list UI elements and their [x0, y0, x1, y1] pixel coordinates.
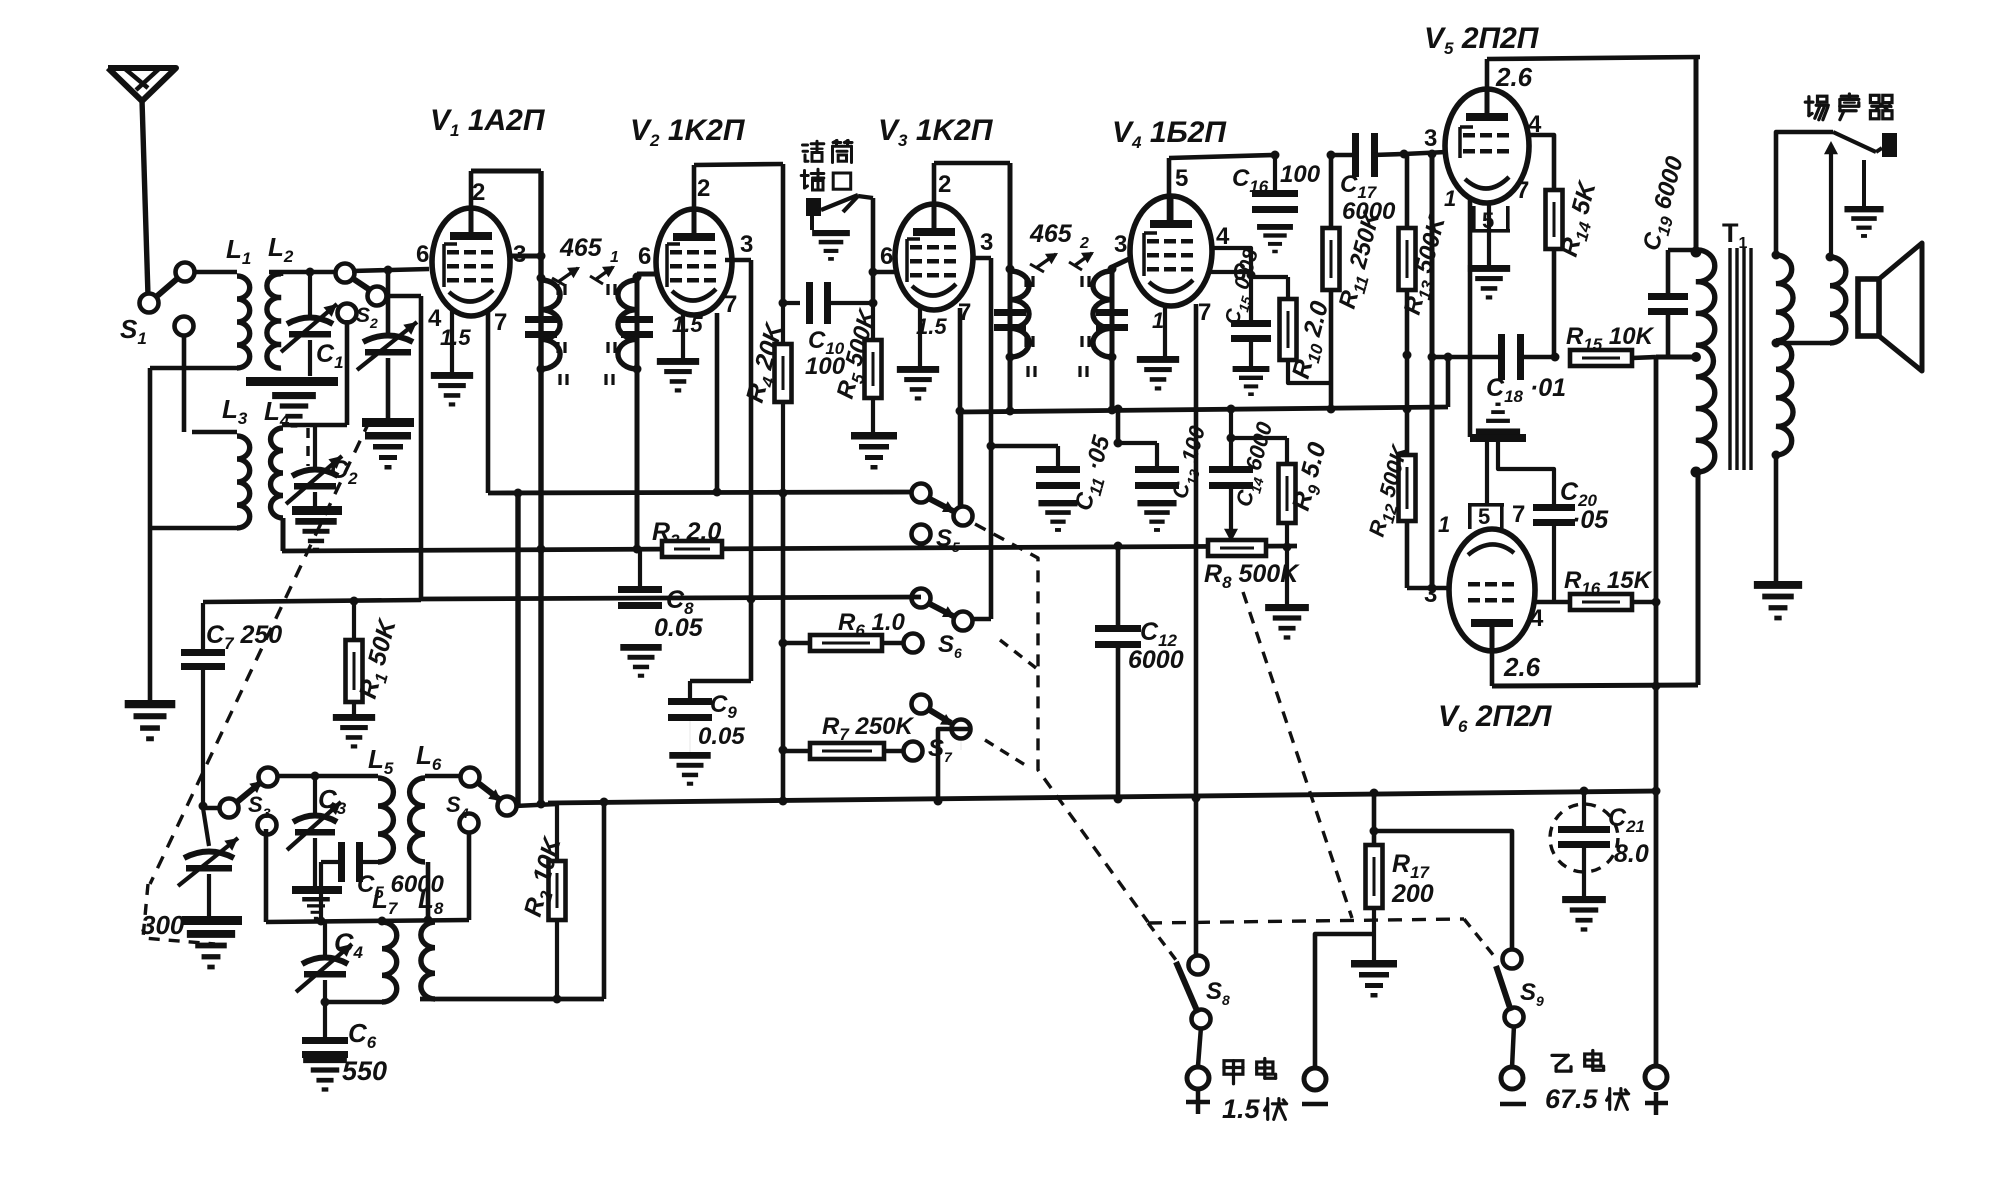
- wire V3 pin3 band line: [971, 256, 991, 261]
- svg-text:2: 2: [938, 171, 951, 198]
- speaker jack: [1882, 133, 1897, 157]
- transformer T1 primary: [1694, 57, 1699, 250]
- capacitor C12: [1116, 546, 1121, 625]
- wire R4 bottom to R6/R7: [781, 493, 786, 802]
- transformer T1 core: [1728, 248, 1731, 470]
- resistor R5 500K: [871, 303, 875, 340]
- resistor R14 5K: [1546, 190, 1563, 249]
- capacitor C15: [1249, 277, 1253, 320]
- svg-text:·05: ·05: [1572, 506, 1609, 534]
- IF1 primary coil: [541, 280, 560, 369]
- filament mid bar and ground: [1470, 434, 1526, 442]
- svg-text:200: 200: [1391, 880, 1434, 908]
- wire V2 pin3 AVC line: [725, 258, 751, 263]
- ground below R1: [333, 714, 375, 749]
- wire V5 cathode ground: [1487, 203, 1491, 267]
- wire S2 to V1 grid: [352, 269, 429, 271]
- wire S7 pivot to bus: [960, 737, 962, 750]
- wire plate drop to R4: [781, 164, 786, 303]
- wire S2 pivot to oscillator line: [385, 294, 421, 299]
- tuning capacitor (main gang): [386, 270, 391, 336]
- svg-text:1: 1: [1438, 512, 1450, 537]
- tube V3 1K2П: [895, 204, 973, 310]
- resistor R4 20K: [781, 303, 785, 344]
- svg-text:3: 3: [740, 231, 753, 258]
- wire V1 plate drop: [538, 171, 543, 804]
- svg-text:6000: 6000: [1128, 646, 1184, 674]
- svg-text:2: 2: [697, 175, 710, 202]
- wire V5 grid: [1404, 152, 1446, 154]
- svg-text:1: 1: [1152, 308, 1164, 333]
- bus A-line y493: [488, 492, 921, 493]
- wire S6 pivot: [965, 617, 991, 622]
- wire V4 plate top: [1167, 158, 1172, 222]
- wire S9 feed: [1374, 831, 1512, 951]
- wire C11 feed: [991, 444, 1058, 449]
- wire primary bottom to V6 plate wire: [1696, 472, 1701, 685]
- IF2 primary coil: [1010, 271, 1029, 357]
- wire A- terminal: [1315, 934, 1374, 1068]
- svg-text:4: 4: [1530, 605, 1544, 632]
- wire V1 pin7 filament: [486, 312, 491, 493]
- ground below L3 line: [125, 700, 176, 741]
- svg-text:1.5: 1.5: [440, 325, 471, 350]
- svg-text:V3 1K2П: V3 1K2П: [878, 114, 994, 150]
- svg-text:2.6: 2.6: [1503, 652, 1541, 682]
- wire V4 cathode ground: [1163, 304, 1167, 358]
- resistor R10 2.0: [1251, 275, 1288, 279]
- wire V3 pin7 to bus: [958, 308, 963, 512]
- wire V3 cathode ground: [918, 306, 922, 368]
- svg-text:100: 100: [1280, 161, 1321, 188]
- svg-text:0.05: 0.05: [654, 614, 704, 642]
- tube V2 1K2П: [656, 209, 732, 315]
- switch S9: [1503, 950, 1522, 969]
- svg-text:R7 250K: R7 250K: [822, 713, 915, 744]
- wire V2 pin7 filament: [715, 313, 720, 492]
- speaker label: [1805, 96, 1828, 120]
- battery B label: [1552, 1055, 1571, 1071]
- svg-text:2: 2: [472, 179, 485, 206]
- wire bus491 riser x518: [515, 493, 520, 806]
- resistor R13 500K: [1400, 150, 1409, 159]
- wire secondary bottom ground: [1774, 455, 1779, 583]
- svg-text:R16 15K: R16 15K: [1564, 567, 1653, 598]
- resistor R15 10K: [1551, 353, 1560, 362]
- svg-text:V5 2П2П: V5 2П2П: [1424, 22, 1540, 58]
- IF2 secondary coil: [1093, 271, 1112, 357]
- capacitor C13: [1135, 466, 1179, 473]
- wire V6 plate bottom: [1490, 651, 1495, 686]
- switch S8: [1189, 956, 1208, 975]
- svg-text:550: 550: [342, 1056, 387, 1086]
- wire C7/R1 oscillator feed: [203, 600, 421, 602]
- wire S3 pivot to C7 line: [203, 806, 221, 811]
- svg-text:465: 465: [559, 234, 603, 262]
- tube V5 2П2П: [1445, 89, 1529, 203]
- svg-text:6: 6: [416, 241, 429, 268]
- capacitor C20: [1533, 504, 1575, 511]
- switch S3: [259, 768, 278, 787]
- switch S1: [140, 294, 159, 313]
- svg-text:5: 5: [1175, 165, 1188, 192]
- capacitor C14: [1229, 409, 1233, 438]
- svg-text:C18 ·01: C18 ·01: [1486, 374, 1566, 406]
- resistor R8 500K potentiometer: [1208, 540, 1266, 556]
- tube V1 1A2П: [432, 208, 510, 316]
- dashed gang band switch: [975, 524, 1148, 922]
- svg-text:67.5: 67.5: [1545, 1084, 1599, 1114]
- wire L1-L3 bottom link: [150, 366, 237, 371]
- resistor R9 5.0: [1231, 436, 1287, 440]
- svg-text:7: 7: [1516, 177, 1529, 204]
- resistor R12 500K: [1399, 455, 1416, 521]
- microphone jack label: [803, 141, 824, 161]
- wire V4 pins 4/6: [1210, 248, 1251, 277]
- wire V1 pin4 cathode: [450, 308, 454, 374]
- wire V5 pin1 drop: [1468, 200, 1473, 437]
- tube V4 1Б2П: [1130, 196, 1212, 306]
- svg-text:8.0: 8.0: [1614, 840, 1649, 868]
- switch S7: [904, 742, 923, 761]
- wire V5 plate top: [1485, 59, 1490, 89]
- capacitor C18: [1432, 355, 1500, 360]
- wire V3 plate top: [932, 163, 937, 228]
- IF1 secondary capacitor: [635, 274, 640, 549]
- wire primary feed R15: [1656, 355, 1696, 360]
- svg-text:3: 3: [980, 229, 993, 256]
- svg-text:1.5: 1.5: [672, 312, 703, 337]
- wire S3 top to L5: [276, 774, 378, 779]
- IF1 secondary coil: [618, 280, 637, 369]
- svg-text:1.5: 1.5: [1222, 1094, 1261, 1124]
- wire S4 lower contact down: [467, 831, 472, 920]
- wire V2 plate top: [692, 165, 697, 233]
- wire bus411 riser to C18 line: [1446, 357, 1451, 407]
- wire L7 bottom link: [325, 1000, 382, 1005]
- dashed power switch linkage: [1148, 919, 1464, 923]
- capacitor C21 electrolytic: [1550, 804, 1618, 872]
- wire V6 grid: [1407, 586, 1449, 591]
- svg-text:1: 1: [610, 249, 619, 266]
- wire S5 pivot riser: [959, 412, 964, 508]
- svg-text:V2 1K2П: V2 1K2П: [630, 114, 746, 150]
- svg-text:7: 7: [724, 291, 737, 318]
- svg-text:300: 300: [141, 910, 185, 940]
- svg-text:R15 10K: R15 10K: [1566, 323, 1655, 354]
- capacitor C17: [1331, 153, 1352, 158]
- ground below R5: [851, 432, 897, 470]
- wire V4 pin7 filament long: [1194, 304, 1199, 962]
- capacitor C9: [690, 679, 751, 684]
- resistor R2 10K: [555, 804, 559, 861]
- wire IF1 to V2 grid: [637, 272, 656, 277]
- L2/C1 bottom bar and ground: [246, 377, 338, 386]
- oscillator line to S6: [421, 597, 921, 599]
- capacitor C6: [302, 1037, 348, 1044]
- tube V6 2П2П: [1449, 529, 1535, 651]
- dashed gang volume to power: [1243, 592, 1352, 918]
- svg-text:V1 1A2П: V1 1A2П: [430, 104, 546, 140]
- resistor R11 250K: [1329, 155, 1334, 228]
- IF2 primary capacitor: [1008, 163, 1013, 412]
- resistor R17 200: [1372, 793, 1377, 845]
- wire C13 feed: [1116, 407, 1121, 443]
- svg-text:1: 1: [1444, 186, 1456, 211]
- main bus B+ y800: [548, 791, 1656, 803]
- resistor R1 50K: [352, 601, 356, 640]
- wire bar to C20: [1498, 442, 1554, 504]
- wire L6 to L8: [426, 862, 431, 920]
- capacitor C8: [638, 549, 642, 586]
- wire V1 plate top: [469, 171, 474, 232]
- wire IF2 to V4 grid: [1112, 258, 1131, 267]
- microphone jack: [806, 198, 821, 216]
- speaker cone: [1858, 279, 1879, 336]
- transformer T1 secondary: [1776, 255, 1793, 455]
- speaker voice coil: [1830, 257, 1846, 343]
- ground below R9: [1285, 548, 1289, 606]
- capacitor C11: [1036, 466, 1080, 473]
- battery A+ terminal: [1187, 1067, 1209, 1089]
- switch S2: [336, 264, 355, 283]
- dashed gang line to 300 box: [150, 420, 370, 884]
- svg-text:6: 6: [638, 243, 651, 270]
- wire C18 drop to V6 grid: [1430, 154, 1435, 588]
- svg-text:R8 500K: R8 500K: [1204, 560, 1300, 592]
- wire oscillator coil bottom bus: [420, 997, 604, 1002]
- IF1 primary capacitor: [537, 252, 546, 261]
- switch S7 contact R6: [904, 634, 923, 653]
- svg-text:2: 2: [1079, 235, 1089, 252]
- bus R3 line y547: [282, 546, 1297, 551]
- gang dash C1-C2: [306, 428, 309, 466]
- switch S5: [912, 484, 931, 503]
- svg-text:7: 7: [494, 309, 507, 336]
- switch S6: [912, 589, 931, 608]
- wire B+ vertical right: [1654, 357, 1659, 1068]
- wire L4 bottom to bus: [281, 518, 286, 551]
- oscillator trimmer cap (left): [203, 808, 209, 846]
- svg-text:5: 5: [1478, 504, 1490, 529]
- svg-text:2.6: 2.6: [1495, 62, 1533, 92]
- ground below R17: [1351, 960, 1397, 998]
- svg-text:V6 2П2Л: V6 2П2Л: [1438, 700, 1553, 736]
- svg-text:0.05: 0.05: [698, 723, 745, 750]
- battery B+ terminal: [1645, 1066, 1667, 1088]
- resistor R12 upper wire: [1406, 587, 1408, 589]
- L4/C2 bottom bar and ground: [292, 506, 342, 515]
- svg-text:6: 6: [880, 243, 893, 270]
- svg-text:6000: 6000: [1342, 198, 1396, 225]
- wire V5 pin4 to R14: [1526, 135, 1554, 190]
- resistor R16 15K: [1535, 600, 1570, 605]
- svg-text:3: 3: [1424, 125, 1437, 152]
- svg-text:3: 3: [1424, 581, 1437, 608]
- svg-text:C7 250: C7 250: [206, 621, 282, 653]
- battery A label: [1224, 1061, 1243, 1084]
- switch S4: [461, 768, 480, 787]
- antenna: [108, 68, 176, 101]
- battery B- terminal: [1501, 1067, 1523, 1089]
- IF2 secondary capacitor: [1110, 266, 1115, 412]
- wire V6 pin5/7 stems: [1485, 442, 1489, 505]
- wire V1 pin3 to IF1: [508, 254, 541, 259]
- wire secondary to speaker jack: [1776, 132, 1833, 255]
- wire V2 cathode ground: [681, 312, 685, 360]
- battery A- terminal: [1304, 1068, 1326, 1090]
- svg-text:3: 3: [1114, 231, 1127, 258]
- speaker plug arrow: [1829, 145, 1833, 255]
- svg-text:465: 465: [1029, 220, 1073, 248]
- wire L7 L8 top bus: [266, 920, 469, 922]
- capacitor C16: [1273, 155, 1277, 190]
- svg-text:7: 7: [1512, 501, 1525, 528]
- wire jack to V3 grid: [858, 196, 873, 198]
- bus B-line y411: [960, 407, 1448, 412]
- wire S4 pivot junction: [515, 804, 557, 806]
- capacitor C19: [1666, 250, 1671, 293]
- svg-text:7: 7: [1198, 299, 1211, 326]
- capacitor C10: [783, 301, 800, 305]
- svg-text:V4 1Б2П: V4 1Б2П: [1112, 116, 1227, 152]
- wire V3 grid: [873, 270, 895, 275]
